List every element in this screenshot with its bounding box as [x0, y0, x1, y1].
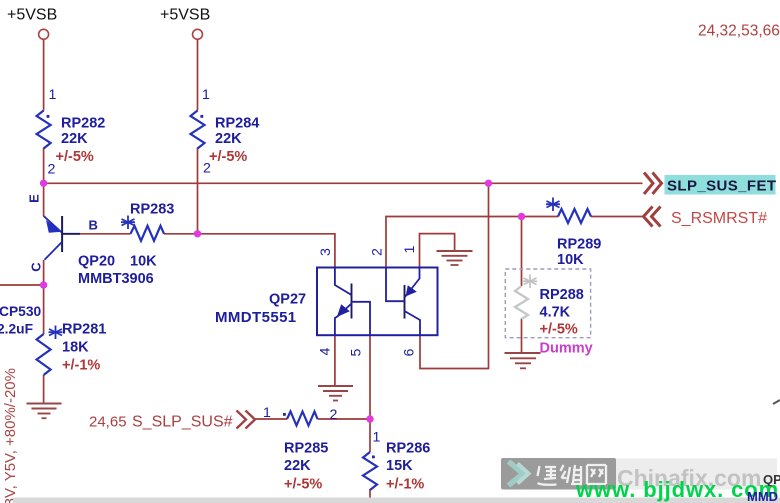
svg-text:3: 3 — [318, 248, 334, 256]
svg-text:MMD: MMD — [747, 489, 778, 503]
asterisk RP281 — [49, 326, 63, 340]
svg-text:RP284: RP284 — [215, 116, 259, 132]
svg-text:Dummy: Dummy — [540, 341, 593, 357]
wire pin2 up and right (S_RSMRST# net) — [386, 217, 558, 268]
resistor RP288 (dummy, gray) — [515, 286, 528, 319]
chevron in S_RSMRST# — [644, 207, 661, 227]
svg-text:+5VSB: +5VSB — [7, 7, 57, 24]
pin-1 dot marker RP284 — [200, 115, 203, 118]
svg-text:1: 1 — [402, 245, 418, 253]
svg-text:SLP_SUS_FET: SLP_SUS_FET — [667, 178, 776, 195]
svg-text:E: E — [27, 194, 42, 203]
watermark teal chevron — [509, 462, 524, 486]
wire S_SLP_SUS# to RP285 — [255, 418, 287, 420]
svg-text:4: 4 — [318, 347, 334, 355]
wire pin6 right and up to net y183 — [420, 183, 489, 368]
dummy dashed box RP288 — [505, 269, 590, 338]
chevron out S_SLP_SUS# — [237, 411, 256, 429]
svg-text:22K: 22K — [284, 458, 311, 474]
watermark hanzi (approximated strokes) — [538, 465, 607, 485]
QP27 left transistor — [335, 268, 370, 336]
svg-text:1: 1 — [202, 87, 210, 103]
pin-1 dot marker RP282 — [47, 115, 50, 118]
svg-text:S_SLP_SUS#: S_SLP_SUS# — [132, 414, 233, 431]
svg-text:C: C — [29, 262, 44, 272]
asterisk RP283 — [121, 216, 135, 230]
wire base of QP20 to RP283 — [63, 233, 131, 235]
wire pin1 to ground — [420, 234, 455, 268]
terminal +5VSB circle 1 — [39, 29, 49, 39]
wire — [197, 148, 199, 234]
resistor RP286 — [363, 452, 377, 490]
pin-1 dot marker RP286 — [372, 456, 375, 459]
svg-text:MMDT5551: MMDT5551 — [215, 309, 297, 326]
svg-text:22K: 22K — [61, 131, 88, 147]
wire RP288 to ground — [521, 319, 523, 353]
svg-text:1: 1 — [263, 405, 271, 421]
svg-text:24,32,53,66: 24,32,53,66 — [698, 23, 780, 40]
wire RP283 to pin3 — [164, 234, 335, 268]
svg-text:10K: 10K — [130, 254, 157, 270]
svg-text:1: 1 — [49, 87, 57, 103]
wire to CP530 — [0, 284, 44, 286]
resistor RP282 — [37, 111, 51, 149]
svg-text:+5VSB: +5VSB — [160, 7, 210, 24]
svg-text:CP530: CP530 — [0, 304, 42, 319]
ground (QP27 pin4) — [318, 386, 353, 401]
watermark pale band — [616, 459, 777, 490]
svg-text:+/-1%: +/-1% — [62, 358, 100, 374]
svg-text:+/-5%: +/-5% — [540, 322, 578, 338]
svg-text:S_RSMRST#: S_RSMRST# — [671, 210, 767, 227]
svg-text:+/-1%: +/-1% — [386, 477, 424, 493]
resistor RP283 — [131, 226, 165, 241]
node pin6 riser/net y183 — [485, 180, 492, 187]
svg-text:2: 2 — [330, 407, 338, 423]
node RP282/net — [40, 180, 47, 187]
wire — [43, 285, 45, 334]
wire — [43, 39, 45, 111]
node RP284/base net — [194, 230, 201, 237]
emitter arrow QP20 — [46, 220, 62, 233]
wire RP288 branch down — [521, 217, 523, 287]
ground (RP288) — [505, 353, 541, 368]
resistor RP281 — [37, 334, 51, 375]
terminal +5VSB circle 2 — [193, 29, 203, 39]
net label highlight SLP_SUS_FET — [665, 175, 776, 195]
svg-text:6: 6 — [402, 348, 418, 356]
svg-text:0.1uF, 6.3V, Y5V, +80%/-20%: 0.1uF, 6.3V, Y5V, +80%/-20% — [2, 368, 19, 503]
chevron out SLP_SUS_FET — [644, 173, 662, 195]
svg-text:RP286: RP286 — [386, 441, 430, 457]
resistor RP289 — [558, 209, 591, 223]
pin-1 dot marker RP285 — [283, 413, 286, 416]
svg-text:24,65: 24,65 — [89, 414, 127, 431]
svg-text:+/-5%: +/-5% — [209, 149, 247, 165]
svg-text:MMBT3906: MMBT3906 — [78, 271, 154, 287]
wire RP281 to ground — [43, 375, 45, 403]
svg-text:RP285: RP285 — [284, 441, 328, 457]
svg-text:2: 2 — [370, 248, 386, 256]
resistor RP285 — [287, 412, 318, 426]
wire — [197, 39, 199, 111]
wire — [43, 183, 45, 216]
svg-text:RP283: RP283 — [130, 202, 174, 218]
svg-text:B: B — [89, 218, 98, 233]
wire RP285 to node — [318, 418, 371, 420]
ground (RP281) — [27, 404, 62, 419]
QP27 left emitter arrow — [337, 304, 350, 317]
wire pin4 to ground — [334, 335, 336, 385]
svg-text:QP: QP — [763, 472, 780, 487]
svg-text:2: 2 — [48, 162, 56, 178]
svg-text:5: 5 — [349, 348, 365, 356]
junction node dots — [40, 180, 525, 423]
QP27 right emitter arrow — [406, 285, 417, 296]
asterisk RP288 gray — [523, 275, 537, 289]
ground (QP27 pin1) — [437, 251, 473, 265]
svg-text:1: 1 — [373, 430, 381, 446]
asterisk RP289 — [546, 198, 560, 212]
svg-text:QP27: QP27 — [269, 292, 306, 308]
resistor RP284 — [191, 111, 205, 149]
stray mark right edge — [773, 400, 780, 404]
svg-text:22K: 22K — [215, 131, 242, 147]
svg-text:RP281: RP281 — [62, 322, 106, 338]
svg-text:QP20: QP20 — [78, 254, 115, 270]
svg-text:+/-5%: +/-5% — [284, 477, 322, 493]
wire net y183 to SLP_SUS_FET — [44, 182, 643, 184]
IC box QP27 — [317, 268, 438, 336]
svg-text:15K: 15K — [386, 458, 413, 474]
node collector/CP530/RP281 — [40, 281, 47, 288]
node RP285/pin5/RP286 — [366, 415, 373, 422]
QP27 right transistor — [386, 268, 420, 336]
svg-text:2.2uF: 2.2uF — [0, 322, 33, 337]
wire — [43, 148, 45, 184]
node RP288 branch — [518, 213, 525, 220]
svg-text:4.7K: 4.7K — [540, 305, 571, 321]
watermark gray box — [501, 458, 616, 490]
wire RP289 to S_RSMRST# — [591, 216, 643, 218]
svg-text:+/-5%: +/-5% — [56, 149, 94, 165]
wire pin5 down through node to RP286 — [369, 335, 371, 452]
svg-text:18K: 18K — [62, 340, 89, 356]
svg-text:10K: 10K — [557, 252, 584, 268]
svg-text:RP289: RP289 — [557, 237, 601, 253]
transistor QP20 — [44, 216, 80, 260]
svg-text:RP282: RP282 — [61, 116, 105, 132]
svg-text:RP288: RP288 — [540, 287, 584, 303]
wire RP286 to bottom — [369, 489, 371, 498]
wire collector QP20 down — [43, 260, 45, 285]
bottom gray strip — [13, 498, 780, 503]
